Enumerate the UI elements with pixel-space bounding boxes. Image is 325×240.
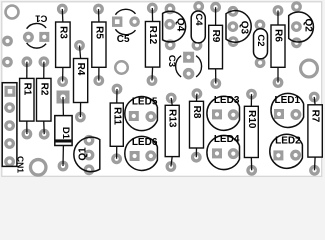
resistor R2	[40, 58, 48, 66]
capacitor C5	[112, 17, 122, 27]
resistor R12	[149, 4, 157, 12]
svg-text:R2: R2	[38, 83, 49, 96]
svg-text:R1: R1	[21, 83, 32, 96]
connector CN1 pin 4 pad	[6, 140, 14, 148]
svg-text:LED6: LED6	[132, 137, 158, 148]
LED LED1	[274, 109, 284, 119]
resistor R9	[212, 3, 220, 11]
svg-text:CN1: CN1	[16, 156, 26, 173]
connector CN1 pin 2 pad	[6, 104, 14, 112]
resistor R4	[76, 42, 84, 50]
capacitor C2	[256, 21, 264, 29]
via hole center-left	[115, 61, 128, 74]
mounting hole top-left	[6, 6, 19, 19]
svg-text:R8: R8	[191, 106, 202, 119]
transistor Q1	[85, 137, 93, 145]
resistor R6	[274, 7, 282, 15]
svg-text:R5: R5	[93, 26, 104, 39]
LED LED5	[129, 111, 139, 121]
svg-text:R11: R11	[111, 107, 122, 125]
connector CN1 pin 5 pad	[6, 158, 14, 166]
diode D1	[57, 91, 70, 104]
connector CN1 pin 1 pad	[5, 86, 16, 97]
transistor Q4	[166, 5, 174, 13]
svg-text:R12: R12	[147, 26, 158, 45]
resistor R1	[23, 58, 31, 66]
svg-text:Q2: Q2	[303, 19, 314, 33]
svg-text:C5: C5	[117, 34, 130, 45]
svg-text:C1: C1	[35, 12, 48, 23]
capacitor C3	[183, 52, 194, 63]
connector CN1 body	[2, 83, 17, 167]
svg-text:R4: R4	[75, 63, 86, 76]
svg-text:R10: R10	[246, 110, 257, 129]
resistor R3	[59, 5, 67, 13]
resistor R7	[310, 93, 318, 101]
LED LED6	[130, 151, 140, 161]
LED LED2	[273, 150, 283, 160]
svg-text:R7: R7	[310, 110, 321, 123]
resistor R8	[193, 90, 201, 98]
svg-text:LED1: LED1	[275, 95, 301, 106]
svg-text:R3: R3	[57, 26, 68, 39]
mounting hole bottom-left	[30, 160, 46, 176]
svg-text:Q4: Q4	[174, 18, 185, 32]
svg-text:Q3: Q3	[239, 21, 250, 35]
transistor Q3	[229, 8, 237, 16]
LED LED3	[212, 109, 222, 119]
LED LED4	[212, 148, 222, 158]
svg-text:LED3: LED3	[214, 95, 240, 106]
pad node A	[4, 37, 12, 45]
svg-text:LED5: LED5	[132, 97, 158, 108]
svg-text:C4: C4	[193, 13, 204, 26]
svg-text:R6: R6	[273, 29, 284, 42]
mounting hole right	[301, 60, 318, 77]
capacitor C4	[195, 3, 203, 10]
svg-text:C3: C3	[166, 55, 177, 67]
resistor R11	[113, 85, 121, 93]
board outline	[2, 2, 322, 177]
resistor R10	[248, 90, 256, 98]
svg-text:R9: R9	[210, 30, 221, 43]
svg-text:R13: R13	[167, 109, 178, 128]
svg-text:Q1: Q1	[78, 147, 89, 161]
svg-text:C2: C2	[255, 34, 266, 46]
connector CN1 pin 3 pad	[6, 122, 14, 130]
capacitor C1	[25, 33, 33, 41]
svg-text:D1: D1	[60, 127, 71, 140]
resistor R5	[95, 5, 103, 13]
svg-text:LED2: LED2	[275, 136, 301, 147]
transistor Q2	[293, 3, 301, 11]
resistor R13	[167, 94, 175, 102]
pad node B	[4, 58, 11, 66]
svg-text:LED4: LED4	[214, 134, 240, 145]
